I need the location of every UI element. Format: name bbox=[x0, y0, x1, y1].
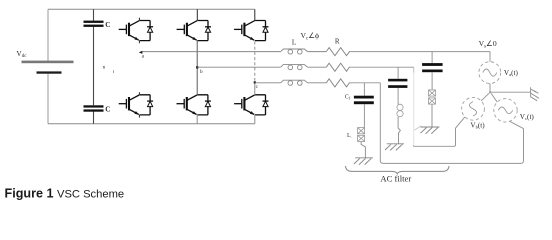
wire: branch 2 to ground bbox=[398, 117, 400, 144]
wire: filter branch 2 drop (phase b) bbox=[397, 67, 399, 79]
capacitor Cf branch 1 bbox=[354, 96, 374, 105]
svg-text:Va(t): Va(t) bbox=[504, 69, 519, 77]
wire: left DC rail (lower segment) bbox=[47, 74, 49, 124]
wire: phase a into source Va bbox=[489, 52, 491, 62]
wire: phase b return (down, across, up to source Vb) bbox=[413, 67, 415, 72]
node: neutral junction bbox=[489, 91, 491, 93]
capacitor C upper DC-link bbox=[84, 21, 104, 27]
svg-text:AC filter: AC filter bbox=[380, 173, 411, 183]
resistor R phase c bbox=[326, 79, 350, 87]
wire: branch 2 cap to coil bbox=[397, 88, 399, 104]
inductor L phase b bbox=[281, 65, 308, 70]
wire: branch 1 to ground bbox=[361, 142, 365, 158]
wire: neutral to ground bbox=[490, 91, 531, 93]
ground (branch 1) bbox=[354, 158, 373, 165]
transistor Q4 with diode D4 (leg b, lower IGBT) bbox=[177, 95, 211, 115]
ground (branch 3) bbox=[421, 127, 440, 134]
transistor Q2 with diode D2 (leg a, lower IGBT) bbox=[119, 95, 153, 115]
capacitor Cf branch 2 bbox=[388, 79, 407, 88]
stray tick mark bbox=[113, 70, 115, 73]
wire: phase c after R bbox=[350, 82, 380, 84]
wire: left DC rail (upper segment) bbox=[47, 9, 49, 61]
resistor R phase b bbox=[326, 63, 350, 71]
wire: leg c mid vertical (dashed) bbox=[254, 42, 256, 81]
wire: branch 3 cap to inductor bbox=[431, 72, 433, 90]
svg-text:a: a bbox=[142, 53, 145, 59]
wire: phase b after R bbox=[350, 66, 414, 68]
svg-text:c: c bbox=[256, 84, 259, 90]
svg-text:Vb(t): Vb(t) bbox=[470, 121, 485, 129]
wire: leg b mid vertical bbox=[196, 41, 198, 95]
inductor L branch 2 (vertical coil) bbox=[397, 104, 403, 117]
wire: phase b line bbox=[197, 66, 281, 68]
wire: leg a collector tick (lower cell) bbox=[138, 92, 140, 95]
svg-text:Figure 1 VSC Scheme: Figure 1 VSC Scheme bbox=[5, 187, 125, 201]
AC source Vb bbox=[462, 97, 485, 120]
svg-text:Vc∠ϕ: Vc∠ϕ bbox=[301, 31, 320, 41]
node b (dot) bbox=[196, 66, 198, 68]
wire: filter branch 1 drop (phase c) bbox=[363, 83, 365, 96]
inductor L branch 1 (damped coil) bbox=[358, 128, 365, 142]
wire: branch 3 to ground bbox=[431, 104, 433, 127]
transistor Q3 with diode D3 (leg b, upper IGBT) bbox=[177, 21, 211, 41]
wire: leg c below node c bbox=[254, 83, 256, 95]
svg-text:C: C bbox=[105, 106, 110, 114]
battery Vdc bbox=[22, 61, 74, 74]
inductor L phase c bbox=[281, 80, 308, 85]
wire: leg a emitter tick (lower cell) bbox=[138, 115, 140, 118]
inductor L phase a bbox=[281, 49, 308, 54]
wire: phase c return (down, across, up to source Vc) bbox=[380, 83, 523, 164]
brace: AC filter bbox=[346, 166, 450, 174]
svg-text:L.: L. bbox=[347, 133, 352, 139]
AC source Vc bbox=[494, 99, 517, 122]
svg-text:b: b bbox=[200, 69, 203, 75]
wire: phase a line bbox=[142, 51, 280, 53]
wire: neutral to Vb (diagonal) bbox=[481, 93, 489, 101]
wire: leg a emitter tick (upper cell) bbox=[138, 41, 140, 44]
wire: Va to neutral junction bbox=[489, 84, 491, 93]
wire: phase a between L and R bbox=[308, 51, 327, 53]
wire: leg a collector tick (upper) bbox=[138, 18, 140, 21]
transistor Q1 with diode D1 (leg a, upper IGBT) bbox=[119, 21, 153, 41]
wire: leg b emitter to bottom rail bbox=[196, 115, 198, 124]
svg-text:C: C bbox=[105, 21, 110, 29]
ground (neutral, right) bbox=[531, 87, 539, 101]
resistor R phase a bbox=[326, 48, 350, 56]
svg-text:R: R bbox=[335, 38, 340, 46]
svg-text:Vs∠0: Vs∠0 bbox=[479, 39, 497, 49]
wire: leg b stub from top rail bbox=[196, 9, 198, 20]
inductor L branch 3 (damped coil) bbox=[429, 90, 436, 104]
transistor Q5 with diode D5 (leg c, upper IGBT) bbox=[234, 21, 268, 41]
wire: leg c emitter to bottom rail bbox=[254, 115, 256, 124]
wire: phase b between L and R bbox=[308, 66, 327, 68]
wire: leg c stub from top rail bbox=[254, 9, 256, 20]
wire: phase c between L and R bbox=[308, 82, 327, 84]
node a (arrow) bbox=[139, 51, 143, 54]
svg-text:n: n bbox=[103, 65, 106, 71]
wire: phase c line bbox=[255, 82, 281, 84]
transistor Q6 with diode D6 (leg c, lower IGBT) bbox=[234, 95, 268, 115]
AC source Va bbox=[479, 62, 501, 84]
ground (branch 2) bbox=[385, 144, 404, 151]
svg-text:Cf: Cf bbox=[345, 95, 351, 101]
wire: DC-link capacitor branch bbox=[93, 9, 95, 124]
wire: bottom DC rail bbox=[48, 123, 255, 125]
wire: branch 1 cap to inductor bbox=[363, 104, 365, 127]
svg-text:Vdc: Vdc bbox=[16, 49, 27, 59]
capacitor C lower DC-link bbox=[84, 105, 104, 111]
svg-text:L: L bbox=[292, 38, 296, 46]
wire: neutral to Vc (diagonal) bbox=[491, 93, 497, 102]
node c (dot) bbox=[254, 81, 256, 83]
capacitor Cf branch 3 bbox=[422, 63, 443, 72]
wire: filter branch 3 drop (phase a) bbox=[431, 52, 433, 64]
wire: phase a after R to source bbox=[350, 51, 490, 53]
wire: top DC rail bbox=[48, 8, 255, 10]
svg-text:Vc(t): Vc(t) bbox=[520, 113, 535, 121]
